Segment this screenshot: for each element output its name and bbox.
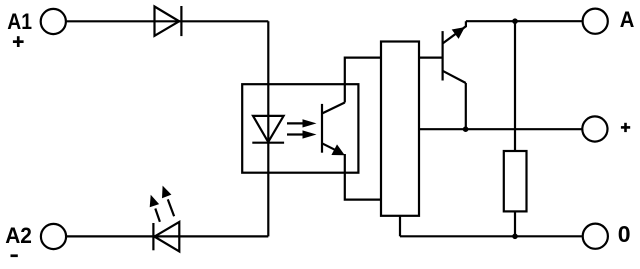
driver block U2 <box>381 42 419 216</box>
wire vertical: D1 cathode down through opto LED to A2 rail <box>267 21 269 236</box>
transistor Q1 <box>443 21 466 83</box>
wire A rail Q1 to terminal A <box>466 20 582 22</box>
phototransistor of U1 <box>322 103 345 156</box>
label - polarity of A2 <box>11 254 18 257</box>
label + output <box>621 123 630 132</box>
svg-text:A1: A1 <box>7 10 32 34</box>
wire A1 input rail <box>67 20 269 22</box>
optocoupler U1 box <box>242 84 358 173</box>
wire phototransistor collector to driver block <box>345 58 381 103</box>
diode D1 <box>155 6 182 36</box>
wire resistor branch from A rail to R1 <box>514 21 516 151</box>
light transfer arrow 1 <box>287 119 317 127</box>
junction dot R1 on 0 rail <box>512 234 518 240</box>
LED D2 status indicator <box>153 222 179 252</box>
junction dot Q1 on + rail <box>463 126 469 132</box>
wire phototransistor emitter to driver block <box>345 154 381 200</box>
wire Q1 lower lead to + rail <box>465 83 467 129</box>
light emission arrow 1 of D2 <box>150 195 160 222</box>
svg-text:A2: A2 <box>5 224 32 249</box>
terminal 0 ground <box>583 224 608 249</box>
wire 0 rail U2 to terminal 0 <box>400 235 582 237</box>
light transfer arrow 2 <box>287 130 317 138</box>
wire U2 bottom lead <box>399 216 401 237</box>
svg-text:A: A <box>620 8 635 32</box>
terminal A1 <box>41 9 66 34</box>
light emission arrow 2 of D2 <box>162 186 174 217</box>
wire R1 to 0 rail <box>514 211 516 236</box>
svg-text:0: 0 <box>618 221 631 247</box>
junction dot A rail resistor branch <box>512 18 518 24</box>
label + polarity of A1 <box>13 36 24 47</box>
resistor R1 <box>504 151 527 211</box>
wire U2 output to Q1 base <box>419 56 443 58</box>
terminal + supply <box>582 116 607 141</box>
wire A2 input rail <box>67 235 268 237</box>
opto LED emitter diode of U1 <box>252 116 284 143</box>
wire + rail U2 to terminal + <box>419 128 582 130</box>
terminal A2 <box>41 224 66 249</box>
terminal A output <box>583 9 608 34</box>
